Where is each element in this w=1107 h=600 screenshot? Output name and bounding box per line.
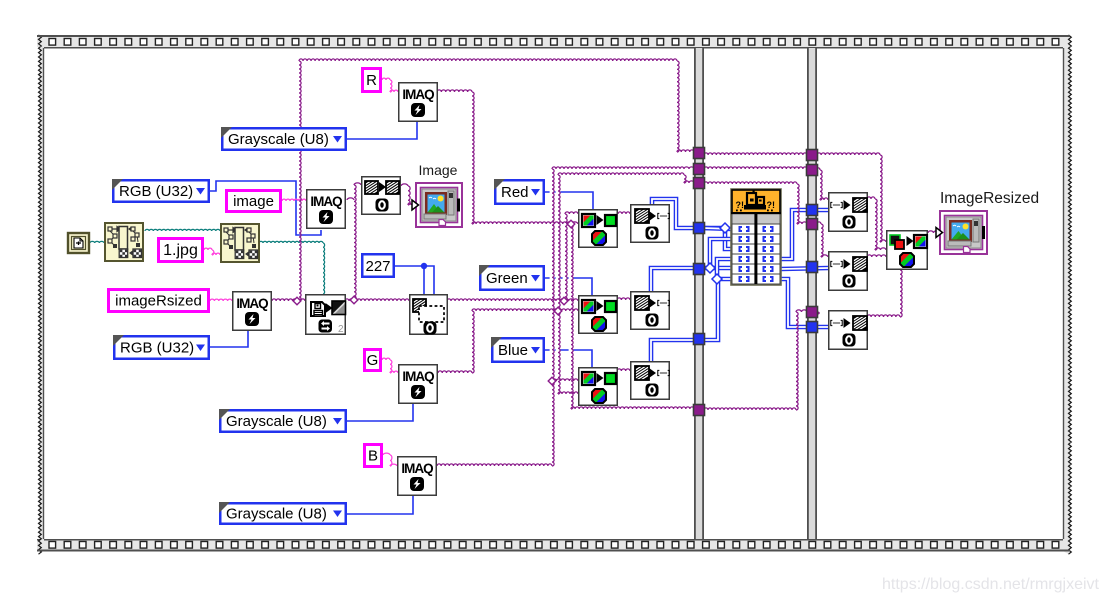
wire: Grayscale(U8)#3 to IMAQ Create B — [347, 495, 413, 514]
2D array wire: ImageToArray1 to tunnel R — [652, 199, 722, 228]
path wire: VI path constant to Strip Path — [90, 241, 104, 243]
tunnel purple d2-A — [807, 150, 818, 161]
tunnel blue d1-R — [694, 223, 705, 234]
image wire: RCP out to ImageResized — [928, 231, 939, 233]
svg-text:IMAQ: IMAQ — [310, 194, 342, 209]
svg-text:IMAQ: IMAQ — [236, 296, 268, 311]
wire: RGB(U32)#2 to IMAQ Create imageRsized — [210, 330, 248, 347]
svg-text:Grayscale (U8): Grayscale (U8) — [226, 413, 327, 430]
image wire: Resample out to Extract2 — [447, 299, 564, 301]
svg-text:IMAQ: IMAQ — [402, 87, 434, 102]
image wire: wire B to ArrayToImage1 — [817, 168, 820, 170]
image wire: IMAQ3 out to ReadFile — [272, 299, 305, 301]
image wire: B branch to Extract3 in1 — [552, 379, 578, 381]
tunnel purple d1-B — [694, 164, 705, 175]
tunnel blue d1-G — [694, 264, 705, 275]
tunnel blue d2-2 — [807, 262, 818, 273]
svg-text:Blue: Blue — [498, 342, 528, 359]
2D array wire: ImageToArray2 out to Histogram row5 — [651, 268, 732, 291]
svg-text:R: R — [366, 72, 377, 89]
image wire: into tunnel B — [684, 167, 694, 169]
image wire: G image vertical to tunnel C — [558, 175, 560, 311]
junction imageRsized split — [293, 297, 301, 305]
image wire: readfile image up to Copy node — [354, 185, 356, 300]
ArrayToImage 3 (IMAQ ArrayToImage) — [829, 311, 868, 350]
string constant image — [227, 191, 281, 212]
image wire: ArrayToImage3 out to RCP bottom — [867, 315, 900, 317]
image wire: Copy out to Image indicator — [401, 184, 408, 186]
flat sequence structure border — [37, 35, 1070, 37]
ring constant Blue — [492, 338, 544, 362]
ring constant RGB (U32) — [113, 180, 209, 202]
svg-text:227: 227 — [365, 258, 390, 275]
image wire: IMAQ2 out joins vertical — [347, 198, 354, 200]
junction readfile out split — [350, 296, 358, 304]
image wire: B image bottom run — [437, 464, 552, 466]
svg-text:Green: Green — [486, 270, 528, 287]
wire: Grayscale(U8)#2 to IMAQ Create G — [347, 403, 413, 421]
image wire: branch up to Extract1 in1 — [565, 214, 567, 301]
string wire: B constant to IMAQ Create5 — [383, 453, 390, 455]
junction diamond blue R — [720, 223, 730, 233]
string wire: image constant to IMAQ Create2 — [282, 199, 306, 201]
svg-text:G: G — [367, 352, 379, 369]
Build Path — [221, 224, 259, 262]
image wire: G branch down to Extract3 in2 — [558, 311, 560, 394]
svg-text:Grayscale (U8): Grayscale (U8) — [226, 506, 327, 523]
string wire: R constant to IMAQ Create1 — [382, 78, 390, 80]
sequence frame divider 2 — [807, 48, 817, 539]
junction diamond blue G — [705, 263, 715, 273]
svg-text:imageRsized: imageRsized — [115, 293, 202, 310]
tunnel purple d1-C — [694, 178, 705, 189]
tunnel purple d1-D — [694, 405, 705, 416]
ExtractColorPlane R (IMAQ ExtractSingleColorPlane) — [579, 210, 618, 248]
image wire: wire D to ArrayToImage3 — [817, 312, 819, 314]
wire: Green ring to ExtractColorPlane2 — [545, 278, 592, 295]
string constant imageRsized — [109, 290, 209, 312]
image wire: wire A to ReplaceColorPlane — [817, 153, 880, 155]
ExtractColorPlane B (IMAQ ExtractSingleColorPlane) — [579, 368, 618, 406]
svg-text:IMAQ: IMAQ — [401, 461, 433, 476]
junction resample split — [560, 297, 568, 305]
ImageToArray G (IMAQ ImageToArray) — [631, 292, 670, 330]
wire: 227 to resample node (two inputs) — [395, 266, 434, 294]
film strip perforations — [49, 39, 56, 46]
svg-text:IMAQ: IMAQ — [402, 369, 434, 384]
svg-text:B: B — [368, 448, 378, 465]
wire: Blue ring to ExtractColorPlane3 — [545, 350, 592, 367]
junction diamond blue B — [712, 274, 722, 284]
svg-text:?!: ?! — [767, 200, 776, 210]
image wire: Extract1 to ImageToArray1 — [618, 212, 630, 214]
image wire: B image vertical up to y169 — [552, 169, 554, 466]
string constant B — [365, 445, 382, 467]
image wire: R image: IMAQ1 out to Extract1 — [437, 90, 472, 92]
IMAQ Create image (U2) (IMAQ Create) — [307, 190, 346, 229]
IMAQ Create R (U1) (IMAQ Create) — [399, 83, 438, 122]
tunnel purple d2-B — [807, 165, 818, 176]
ImageToArray B (IMAQ ImageToArray) — [631, 362, 670, 400]
ArrayToImage 1 (IMAQ ArrayToImage) — [829, 193, 868, 232]
wire: RGB(U32)#1 to IMAQ Create image — [210, 181, 321, 235]
2D array wire: branch to row4 — [717, 259, 732, 279]
2D array wire: branch to row3 — [725, 228, 732, 249]
path wire: Build Path to IMAQ ReadFile — [259, 241, 323, 243]
ring constant Green — [480, 266, 544, 290]
svg-text:Grayscale (U8): Grayscale (U8) — [228, 131, 329, 148]
IMAQ Create B (U5) (IMAQ Create) — [398, 457, 437, 496]
numeric constant 227 — [362, 254, 394, 277]
ring constant RGB (U32) — [114, 336, 209, 359]
ring constant Grayscale (U8) — [220, 503, 346, 524]
string wire: imageRsized constant to IMAQ Create3 — [210, 299, 232, 301]
image wire: G image to Extract2 in2 — [438, 371, 472, 373]
image wire: Extract3 to ImageToArray3 — [617, 369, 630, 371]
ring constant Grayscale (U8) — [222, 128, 346, 150]
junction B image split — [548, 377, 556, 385]
ArrayToImage 2 (IMAQ ArrayToImage) — [829, 252, 868, 291]
Strip Path — [105, 223, 143, 261]
image wire: frame2 wire C — [704, 182, 797, 184]
IMAQ Create imageRsized (U3) (IMAQ Create) — [233, 292, 272, 331]
ImageToArray R (IMAQ ImageToArray) — [631, 205, 670, 243]
IMAQ Create G (U4) (IMAQ Create) — [399, 365, 438, 404]
Image image display indicator — [416, 183, 462, 227]
svg-text:1.jpg: 1.jpg — [163, 242, 198, 259]
string constant G — [365, 350, 381, 371]
junction dot on 227 wire — [421, 263, 427, 269]
string constant R — [363, 69, 381, 92]
ExtractColorPlane G (IMAQ ExtractSingleColorPlane) — [579, 296, 618, 334]
svg-text:Red: Red — [501, 184, 529, 201]
tunnel blue d2-1 — [807, 205, 818, 216]
sequence frame divider 1 — [694, 48, 704, 539]
string wire: 1.jpg to Build Path — [204, 248, 212, 250]
svg-text:image: image — [233, 193, 274, 210]
image wire: R image down to tunnel D — [571, 224, 573, 409]
svg-text:https://blog.csdn.net/rmrgjxei: https://blog.csdn.net/rmrgjxeivt — [882, 576, 1100, 593]
ring constant Grayscale (U8) — [220, 410, 346, 432]
image wire: Extract2 to ImageToArray2 — [617, 298, 630, 300]
tunnel blue d1-B — [694, 334, 705, 345]
wire: Red ring to ExtractColorPlane1 — [545, 192, 593, 209]
tunnel purple d2-D — [807, 307, 818, 318]
image wire: frame2 wire A — [704, 153, 807, 155]
tunnel purple d1-A — [694, 148, 705, 159]
path wire: Strip Path to Build Path — [145, 229, 220, 231]
ImageResized image display indicator — [940, 211, 987, 254]
image wire: frame2 wire B — [704, 167, 807, 169]
2D array wire: Histogram row6 out to ArrayToImage3 — [781, 279, 828, 327]
right torn edge — [1063, 35, 1071, 554]
ring constant Red — [495, 180, 544, 204]
image wire: ArrayToImage1 out to RCP — [867, 197, 875, 199]
junction R image split — [567, 220, 575, 228]
image wire: ArrayToImage2 out to RCP — [867, 255, 886, 257]
image wire: ReadFile out to Resample — [345, 299, 409, 301]
svg-text:RGB (U32): RGB (U32) — [119, 183, 193, 200]
left torn edge — [39, 35, 45, 554]
2D array wire: Histogram row5 out to ArrayToImage2 — [781, 268, 828, 269]
string wire: G constant to IMAQ Create4 — [382, 358, 390, 360]
svg-text:ImageResized: ImageResized — [940, 190, 1039, 207]
Current VI path constant — [68, 233, 89, 253]
svg-text:Image: Image — [419, 162, 458, 178]
tunnel blue d2-3 — [807, 322, 818, 333]
ReplaceColorPlane (IMAQ ReplaceColorPlane) — [887, 231, 928, 270]
2D array wire: tunnel R into Histogram row1 — [703, 228, 732, 229]
tunnel purple d2-C — [807, 219, 818, 230]
wire: Grayscale(U8)#1 to IMAQ Create R — [347, 121, 417, 139]
image wire: frame2 wire D — [704, 408, 796, 410]
Histogram express VI — [731, 189, 781, 285]
svg-text:2: 2 — [338, 324, 344, 335]
2D array wire: ImageToArray3 out to Histogram row6 — [651, 279, 732, 361]
IMAQ Copy (IMAQ Copy) — [362, 177, 401, 215]
image wire: wire C to ArrayToImage2 — [817, 222, 821, 224]
2D array wire: Histogram row4 out to ArrayToImage1 — [781, 210, 828, 259]
string constant 1.jpg — [159, 239, 203, 262]
svg-text:RGB (U32): RGB (U32) — [120, 340, 194, 357]
svg-text:?!: ?! — [736, 200, 745, 210]
image wire: imageRsized image to frame tunnel A — [299, 61, 301, 301]
IMAQ ReadFile 2 (IMAQ ReadFile) — [306, 295, 346, 335]
junction G image split — [554, 307, 562, 315]
2D array wire: branch to row2 — [710, 239, 732, 268]
IMAQ Resample 227 (IMAQ Resample) — [410, 295, 448, 335]
